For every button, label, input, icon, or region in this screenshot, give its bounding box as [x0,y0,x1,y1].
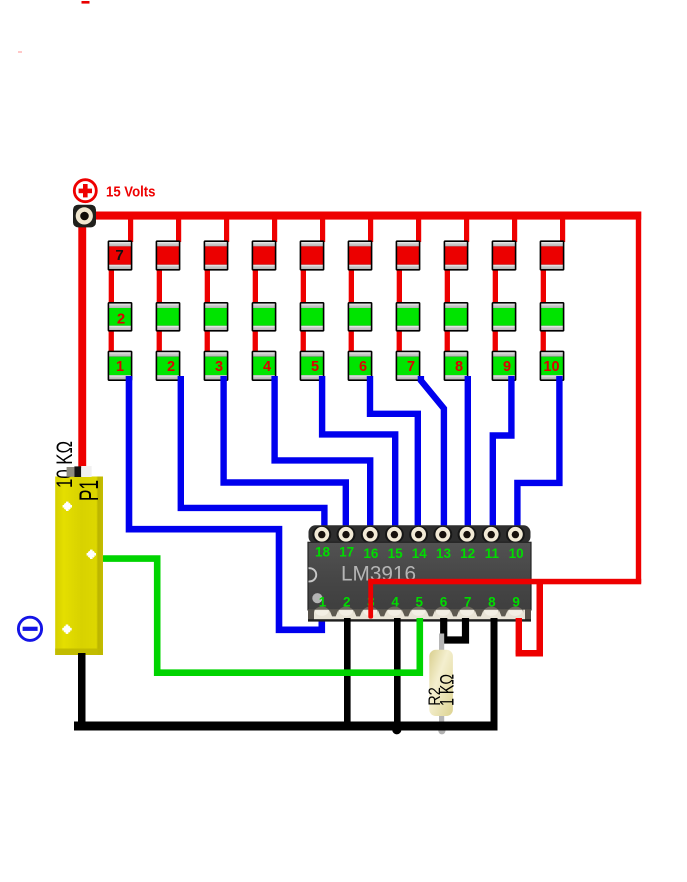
LED green (bottom row) number 6 [348,351,373,381]
potentiometer P1 screw sparkle 1 [62,501,73,512]
wire black pot bottom down [78,653,86,727]
potentiometer P1 top terminal [67,466,92,477]
LED red (top row) column 5 [300,240,325,270]
IC U1 bottom pin strip [308,607,531,622]
LED green (middle row) column 7 [396,302,421,332]
resistor R2 body [429,650,453,716]
IC U1 pin-1 marker dot [312,593,322,603]
svg-text:2: 2 [343,595,351,610]
wire +15V horizontal to pin 3 (over IC) [368,579,641,585]
wire red LED interconnect lower, column 4 [253,330,258,352]
wire blue LED9 to pin 11 (left jog) [493,376,512,531]
LED red (top row) column 9 [492,240,517,270]
svg-text:9: 9 [512,595,520,610]
potentiometer P1 yellow body [55,477,103,656]
LED green (middle row) column 8 [444,302,469,332]
wire red stub from bus to LED column 1 [128,215,133,242]
stray red dash mark top edge [82,1,90,4]
wire pin 9 loop right vertical up to +15V line [537,582,544,657]
IC U1 top pin 15 socket [385,526,404,543]
+15V plus symbol circle [74,180,96,202]
wire red LED interconnect lower, column 1 [109,330,114,352]
wire red LED interconnect upper, column 8 [445,268,450,304]
svg-text:16: 16 [363,546,379,561]
wire red LED interconnect upper, column 3 [205,268,210,304]
LED green (bottom row) number 4 [252,351,277,381]
wire red LED interconnect upper, column 5 [301,268,306,304]
LED red (top row) column 2 [156,240,181,270]
svg-text:17: 17 [339,544,354,559]
wire blue LED5 to pin 15 [322,376,395,531]
wire blue LED1 to pin 1 (down, right, down left side of IC, right, up) [129,376,322,630]
+15V terminal pad [73,205,96,228]
minus terminal symbol [18,617,41,640]
LED green (middle row) column 4 [252,302,277,332]
svg-text:15: 15 [388,546,404,561]
LED green (bottom row) number 7 [396,351,421,381]
svg-text:7: 7 [115,247,123,264]
LED green (middle row) column 2 [156,302,181,332]
wire red stub from bus to LED column 10 [560,215,565,242]
wire red LED interconnect lower, column 10 [541,330,546,352]
IC U1 top pin 18 socket [312,526,331,543]
wire red LED interconnect lower, column 6 [349,330,354,352]
wire red LED interconnect upper, column 4 [253,268,258,304]
svg-text:1 KΩ: 1 KΩ [437,674,458,706]
wire black U-link pin 6 to pin 7 [444,618,466,640]
svg-text:15 Volts: 15 Volts [106,185,156,201]
svg-text:2: 2 [117,310,125,327]
LED red (top row) column 8 [444,240,469,270]
svg-text:6: 6 [359,359,367,375]
solder blob pin 4 wire end on bus [392,725,401,734]
svg-text:8: 8 [488,595,496,610]
resistor R2 bottom lead [439,714,444,730]
wire pin 9 loop bottom horizontal [516,650,543,657]
IC U1 top pin 10 socket [506,526,525,543]
svg-text:1: 1 [319,595,327,610]
wire black pin 4 to ground bus [394,618,401,726]
svg-text:12: 12 [460,546,475,561]
svg-text:11: 11 [485,546,500,561]
svg-text:1: 1 [116,359,124,375]
wire red LED interconnect upper, column 7 [397,268,402,304]
potentiometer P1 screw sparkle 3 [61,624,72,635]
svg-text:5: 5 [416,595,424,610]
wire blue LED4 to pin 16 [275,376,371,531]
LED red (top row) column 4 [252,240,277,270]
svg-text:10: 10 [543,359,559,375]
LED red (top row) column 6 [348,240,373,270]
wire red LED interconnect lower, column 9 [493,330,498,352]
LED red (top row) column 10 [540,240,565,270]
wire red stub from bus to LED column 3 [224,215,229,242]
IC U1 top pin 12 socket [458,526,477,543]
svg-text:7: 7 [464,595,472,610]
wire red LED interconnect upper, column 9 [493,268,498,304]
wire pin 9 mode-select leg down from pin [516,618,522,655]
LED green (middle row) column 1 [108,302,133,332]
wire red LED interconnect lower, column 8 [445,330,450,352]
wire black pin 8 to ground bus [491,618,498,726]
wire +15V bus horizontal top [92,212,641,220]
svg-text:9: 9 [503,359,511,375]
LED green (bottom row) number 8 [444,351,469,381]
wire red LED interconnect upper, column 10 [541,268,546,304]
LED green (middle row) column 6 [348,302,373,332]
svg-text:6: 6 [440,595,448,610]
svg-text:7: 7 [407,359,415,375]
wire red LED interconnect upper, column 2 [157,268,162,304]
faint stray pink dot [18,51,22,53]
wire blue LED8 to pin 12 (straight) [465,376,471,531]
wire red stub from bus to LED column 6 [368,215,373,242]
svg-text:4: 4 [263,359,271,375]
wire red from +15V pad down to potentiometer [78,224,86,468]
svg-text:2: 2 [167,359,175,375]
wire red LED interconnect upper, column 1 [109,268,114,304]
LED green (bottom row) number 10 [540,351,565,381]
wire red stub from bus to LED column 7 [416,215,421,242]
LED green (bottom row) number 9 [492,351,517,381]
svg-text:8: 8 [455,359,463,375]
LED green (bottom row) number 1 [108,351,133,381]
resistor R2 top lead [439,634,444,652]
IC U1 body [308,542,531,610]
wire blue LED2 to pin 18 [181,376,325,531]
IC U1 top pin 11 socket [482,526,501,543]
wire red stub from bus to LED column 8 [464,215,469,242]
wire blue LED7 to pin 13 (diagonal jog) [421,376,444,531]
wire +15V bus right vertical drop [636,212,641,584]
IC U1 top pin 17 socket [337,526,356,543]
wire red stub from bus to LED column 4 [272,215,277,242]
wire red LED interconnect lower, column 3 [205,330,210,352]
svg-text:18: 18 [315,544,331,559]
svg-text:P1: P1 [74,480,104,501]
svg-text:13: 13 [436,546,452,561]
wire red LED interconnect lower, column 7 [397,330,402,352]
IC U1 top pin 14 socket [409,526,428,543]
LED green (middle row) column 9 [492,302,517,332]
LED green (bottom row) number 3 [204,351,229,381]
LED green (middle row) column 5 [300,302,325,332]
wire green pot wiper to pin 5 [103,559,420,673]
wire red stub from bus to LED column 5 [320,215,325,242]
potentiometer P1 screw sparkle 2 [86,549,97,560]
svg-text:14: 14 [412,546,428,561]
LED green (bottom row) number 2 [156,351,181,381]
op IC U1 top pin header strip [309,525,531,543]
LED red (top row) column 3 [204,240,229,270]
resistor R2 lead end blob [438,727,445,734]
wire red LED interconnect lower, column 2 [157,330,162,352]
svg-text:5: 5 [311,359,319,375]
wire black pin 2 to ground bus [344,618,351,726]
LED red (top row) column 7 [396,240,421,270]
IC U1 top pin 16 socket [361,526,380,543]
LED green (middle row) column 3 [204,302,229,332]
wire red stub from bus to LED column 9 [512,215,517,242]
wire red stub from bus to LED column 2 [176,215,181,242]
wire +15V leg down into pin 3 [368,579,373,619]
LED green (middle row) column 10 [540,302,565,332]
IC U1 pin-1 end notch [309,568,317,581]
wire blue LED3 to pin 17 [224,376,346,531]
svg-text:3: 3 [215,359,223,375]
wire red LED interconnect upper, column 6 [349,268,354,304]
wire blue LED10 to pin 10 (left jog) [517,376,559,531]
LED green (bottom row) number 5 [300,351,325,381]
wire blue LED6 to pin 14 [370,376,418,531]
svg-text:10: 10 [509,546,524,561]
wire black ground bus bottom [74,722,498,731]
LED red (top row) column 1 [108,240,133,270]
wire red LED interconnect lower, column 5 [301,330,306,352]
IC U1 top pin 13 socket [433,526,452,543]
svg-text:4: 4 [391,595,399,610]
